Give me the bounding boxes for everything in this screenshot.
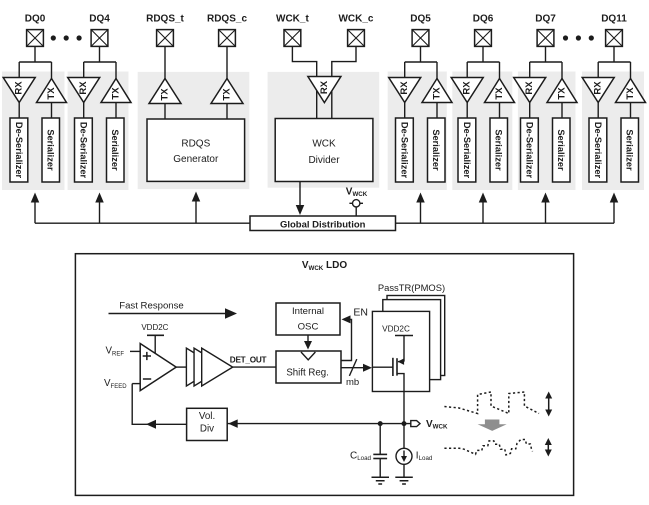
- svg-text:PassTR(PMOS): PassTR(PMOS): [378, 282, 445, 293]
- transmitter TX (RDQS_t): [149, 79, 181, 104]
- svg-text:RX: RX: [319, 80, 330, 94]
- wire comparator to buffer chain: [176, 366, 187, 368]
- svg-text:DET_OUT: DET_OUT: [230, 355, 267, 364]
- Global Distribution block: [250, 216, 396, 231]
- pad RDQS_t: [157, 30, 174, 47]
- svg-text:RDQS_t: RDQS_t: [146, 13, 184, 24]
- svg-text:De-Serializer: De-Serializer: [399, 122, 409, 179]
- waveform before (large ripple): [444, 392, 539, 414]
- input label V_REF: [106, 346, 125, 358]
- svg-text:RX: RX: [462, 81, 473, 95]
- svg-text:RX: RX: [14, 81, 25, 95]
- bus label mb: [346, 377, 359, 388]
- svg-text:De-Serializer: De-Serializer: [78, 122, 88, 179]
- pad WCK_c: [348, 30, 365, 47]
- svg-text:TX: TX: [625, 87, 636, 100]
- svg-text:TX: TX: [432, 87, 443, 100]
- receiver RX (DQ7): [514, 78, 546, 103]
- svg-text:RX: RX: [78, 81, 89, 95]
- wire RX to De-Serializer (DQ11): [597, 103, 599, 119]
- svg-text:WCK: WCK: [312, 139, 336, 150]
- De-Serializer (DQ4): [75, 118, 93, 182]
- DQ6 I/O slice background: [452, 72, 512, 191]
- ripple range arrow (after): [545, 438, 552, 457]
- wire RX to De-Serializer (DQ7): [529, 103, 531, 119]
- annotation Fast Response: [119, 300, 184, 311]
- svg-text:DQ0: DQ0: [25, 13, 46, 24]
- svg-text:TX: TX: [160, 88, 171, 101]
- junction V_WCK node: [402, 421, 407, 426]
- svg-text:EN: EN: [353, 306, 368, 318]
- svg-text:De-Serializer: De-Serializer: [593, 122, 603, 179]
- svg-text:De-Serializer: De-Serializer: [462, 122, 472, 179]
- DQ11 I/O slice background: [582, 72, 644, 191]
- Internal OSC block: [276, 303, 340, 335]
- svg-text:Serializer: Serializer: [556, 129, 566, 171]
- wire RX to De-Serializer (DQ4): [83, 103, 85, 119]
- wire DET_OUT to Shift Reg: [233, 366, 276, 368]
- svg-text:De-Serializer: De-Serializer: [14, 122, 24, 179]
- node label V_WCK (supply into Global Distribution): [346, 186, 368, 198]
- EN feedback wire Shift Reg to Internal OSC: [341, 315, 352, 360]
- receiver RX (DQ4): [68, 78, 100, 103]
- drain wire PassTR to V_WCK node: [403, 392, 405, 424]
- svg-text:Divider: Divider: [308, 155, 340, 166]
- transmitter TX (DQ4): [101, 79, 131, 103]
- svg-text:WCK_c: WCK_c: [338, 13, 373, 24]
- pad DQ4: [91, 30, 108, 47]
- ellipsis dots between DQ0 and DQ4: [51, 35, 82, 40]
- PassTR stack box (back): [387, 296, 445, 376]
- De-Serializer (DQ11): [589, 118, 607, 182]
- wire RX to De-Serializer (DQ6): [466, 103, 468, 119]
- DQ7 I/O slice background: [518, 72, 576, 191]
- pad label DQ0: [25, 13, 46, 24]
- Serializer (DQ7): [553, 118, 571, 182]
- capacitor C_Load: [373, 424, 387, 477]
- clock bus (left segment): [35, 222, 250, 224]
- pad label WCK_c: [338, 13, 373, 24]
- pad label DQ4: [89, 13, 110, 24]
- supply label VDD2C (PassTR): [382, 324, 410, 333]
- ripple range arrow (before): [545, 392, 552, 417]
- wire pad DQ4 to RX/TX: [84, 47, 116, 80]
- transmitter TX (DQ6): [485, 79, 515, 103]
- receiver RX (DQ5): [389, 78, 421, 103]
- wire TX to Serializer (DQ5): [436, 103, 438, 119]
- transmitter TX (DQ11): [616, 79, 646, 103]
- pad RDQS_c: [219, 30, 236, 47]
- ground (C_Load): [372, 477, 390, 484]
- clock feed arrow to DQ4 group: [95, 193, 104, 224]
- Shift Reg block: [276, 351, 341, 383]
- ground (I_Load): [395, 477, 413, 484]
- svg-text:DQ11: DQ11: [601, 13, 627, 24]
- wire V_FEED to comparator: [132, 383, 140, 385]
- clock bus (right segment): [396, 222, 615, 224]
- gate wire into PassTR: [372, 366, 393, 368]
- receiver RX (DQ6): [451, 78, 483, 103]
- Serializer (DQ11): [621, 118, 639, 182]
- svg-text:De-Serializer: De-Serializer: [524, 122, 534, 179]
- V_WCK output rail: [227, 423, 411, 425]
- wire TX to RDQS Generator (RDQS_t): [164, 104, 166, 120]
- DQ5 I/O slice background: [388, 72, 447, 191]
- svg-text:VDD2C: VDD2C: [141, 323, 168, 332]
- wire Internal OSC to Shift Reg clock (arrow down): [304, 335, 312, 350]
- pad label DQ6: [473, 13, 494, 24]
- De-Serializer (DQ7): [521, 118, 539, 182]
- svg-text:RX: RX: [399, 81, 410, 95]
- svg-text:DQ7: DQ7: [535, 13, 556, 24]
- svg-text:Vol.: Vol.: [199, 411, 215, 422]
- label I_Load: [416, 450, 433, 462]
- V_WCK output terminal flag: [411, 421, 420, 427]
- input label V_FEED: [104, 378, 127, 390]
- svg-text:Serializer: Serializer: [46, 129, 56, 171]
- svg-text:Fast Response: Fast Response: [119, 300, 184, 311]
- De-Serializer (DQ5): [396, 118, 414, 182]
- svg-text:Div: Div: [200, 424, 214, 435]
- pad label DQ7: [535, 13, 556, 24]
- Serializer (DQ0): [42, 118, 60, 182]
- wire RX to De-Serializer (DQ5): [404, 103, 406, 119]
- node label V_WCK (output): [426, 419, 448, 431]
- wire pad WCK_t to RX: [292, 47, 316, 119]
- clock feed arrow to DQ11 group: [610, 193, 619, 224]
- svg-text:TX: TX: [46, 87, 57, 100]
- arrowhead into Vol Div: [228, 419, 238, 428]
- wire TX to Serializer (DQ7): [561, 103, 563, 119]
- clock feed arrow to DQ7 group: [541, 193, 550, 224]
- net label DET_OUT: [230, 355, 267, 364]
- De-Serializer (DQ0): [10, 118, 28, 182]
- supply bar VDD2C (PassTR): [395, 336, 413, 362]
- wire pad RDQS_t to TX: [164, 47, 166, 80]
- svg-text:RDQS_c: RDQS_c: [207, 13, 247, 24]
- label PassTR(PMOS): [378, 282, 445, 293]
- wire TX to Serializer (DQ11): [630, 103, 632, 119]
- PassTR stack box (middle): [383, 300, 441, 380]
- Serializer (DQ4): [107, 118, 125, 182]
- pad label RDQS_t: [146, 13, 184, 24]
- VWCK LDO outer box: [75, 254, 573, 496]
- svg-text:OSC: OSC: [298, 322, 319, 333]
- svg-text:WCK_t: WCK_t: [276, 13, 309, 24]
- receiver RX (DQ11): [582, 78, 614, 103]
- receiver RX (WCK): [308, 77, 341, 103]
- RDQS Generator U_RDQS: [147, 119, 245, 181]
- Serializer (DQ5): [428, 118, 446, 182]
- Serializer (DQ6): [490, 118, 508, 182]
- pad DQ0: [27, 30, 44, 47]
- transmitter TX (DQ5): [422, 79, 452, 103]
- wire Shift Reg to PassTR gate bus: [341, 364, 372, 372]
- pad WCK_t: [284, 30, 301, 47]
- svg-text:TX: TX: [557, 87, 568, 100]
- wire pad DQ7 to RX/TX: [530, 47, 562, 80]
- svg-text:VDD2C: VDD2C: [382, 324, 410, 333]
- svg-text:Serializer: Serializer: [494, 129, 504, 171]
- waveform after (small ripple): [444, 440, 532, 455]
- WCK Divider U_WCKDIV: [275, 119, 373, 182]
- clock feed arrow to DQ6 group: [479, 193, 488, 224]
- wire TX to Serializer (DQ0): [51, 103, 53, 119]
- bus width slash mb: [349, 359, 356, 376]
- pad label DQ11: [601, 13, 627, 24]
- wire TX to Serializer (DQ6): [499, 103, 501, 119]
- svg-text:TX: TX: [222, 88, 233, 101]
- svg-text:mb: mb: [346, 377, 359, 388]
- svg-text:RDQS: RDQS: [181, 139, 210, 150]
- wire TX to RDQS Generator (RDQS_c): [226, 104, 228, 120]
- title VWCK LDO: [302, 260, 348, 272]
- transmitter TX (DQ0): [37, 79, 67, 103]
- RDQS slice background: [138, 72, 250, 189]
- De-Serializer (DQ6): [458, 118, 476, 182]
- wire pad WCK_c to RX: [332, 47, 356, 119]
- wire pad DQ0 to RX/TX: [19, 47, 51, 80]
- wire TX to Serializer (DQ4): [115, 103, 117, 119]
- DQ4 I/O slice background: [68, 72, 129, 191]
- wire WCK Divider to Global Distribution (arrow down): [296, 182, 305, 216]
- receiver RX (DQ0): [3, 78, 35, 103]
- fast response arrow: [109, 308, 238, 319]
- pad DQ7: [537, 30, 554, 47]
- wire pad RDQS_c to TX: [226, 47, 228, 80]
- svg-text:RX: RX: [524, 81, 535, 95]
- DQ0 I/O slice background: [2, 72, 65, 191]
- current source I_Load: [396, 424, 412, 477]
- feedback wire Vol Div to V_FEED: [132, 384, 186, 429]
- pad DQ11: [606, 30, 623, 47]
- svg-text:Global Distribution: Global Distribution: [280, 219, 366, 230]
- svg-text:Internal: Internal: [292, 306, 324, 317]
- pad label WCK_t: [276, 13, 309, 24]
- svg-text:Shift Reg.: Shift Reg.: [286, 367, 329, 378]
- PassTR stack box (front): [372, 311, 429, 391]
- wire V_REF to comparator: [130, 350, 140, 352]
- junction C_Load tap: [378, 421, 383, 426]
- transition arrow (gray): [478, 420, 507, 431]
- svg-text:DQ6: DQ6: [473, 13, 494, 24]
- svg-text:TX: TX: [111, 87, 122, 100]
- transistor Q1 PMOS pass device: [393, 358, 404, 392]
- wire pad DQ11 to RX/TX: [598, 47, 630, 80]
- svg-text:Serializer: Serializer: [110, 129, 120, 171]
- clock feed arrow to DQ0 group: [31, 193, 40, 224]
- wire RX to De-Serializer (DQ0): [18, 103, 20, 119]
- pad label DQ5: [410, 13, 431, 24]
- net label EN: [353, 306, 368, 318]
- svg-text:DQ5: DQ5: [410, 13, 431, 24]
- label C_Load: [350, 450, 372, 462]
- detector buffer chain (3 stages): [186, 348, 232, 386]
- svg-text:Serializer: Serializer: [431, 129, 441, 171]
- svg-text:DQ4: DQ4: [89, 13, 110, 24]
- svg-text:Serializer: Serializer: [625, 129, 635, 171]
- ellipsis dots between DQ7 and DQ11: [563, 35, 594, 40]
- comparator U_CMP: [140, 344, 176, 391]
- clock feed arrow to DQ5 group: [416, 193, 425, 224]
- pad DQ6: [475, 30, 492, 47]
- wire pad DQ5 to RX/TX: [405, 47, 437, 80]
- svg-text:TX: TX: [494, 87, 505, 100]
- transmitter TX (DQ7): [547, 79, 577, 103]
- clock feed arrow to RDQS Generator: [192, 192, 201, 224]
- pad DQ5: [412, 30, 429, 47]
- supply VDD2C (comparator): [141, 323, 168, 354]
- svg-text:Generator: Generator: [173, 154, 219, 165]
- wire pad DQ6 to RX/TX: [467, 47, 499, 80]
- transmitter TX (RDQS_c): [211, 79, 243, 104]
- pad label RDQS_c: [207, 13, 247, 24]
- svg-text:RX: RX: [593, 81, 604, 95]
- Vol Div block: [187, 408, 228, 440]
- terminal circle V_WCK: [349, 200, 363, 216]
- WCK slice background: [268, 72, 380, 188]
